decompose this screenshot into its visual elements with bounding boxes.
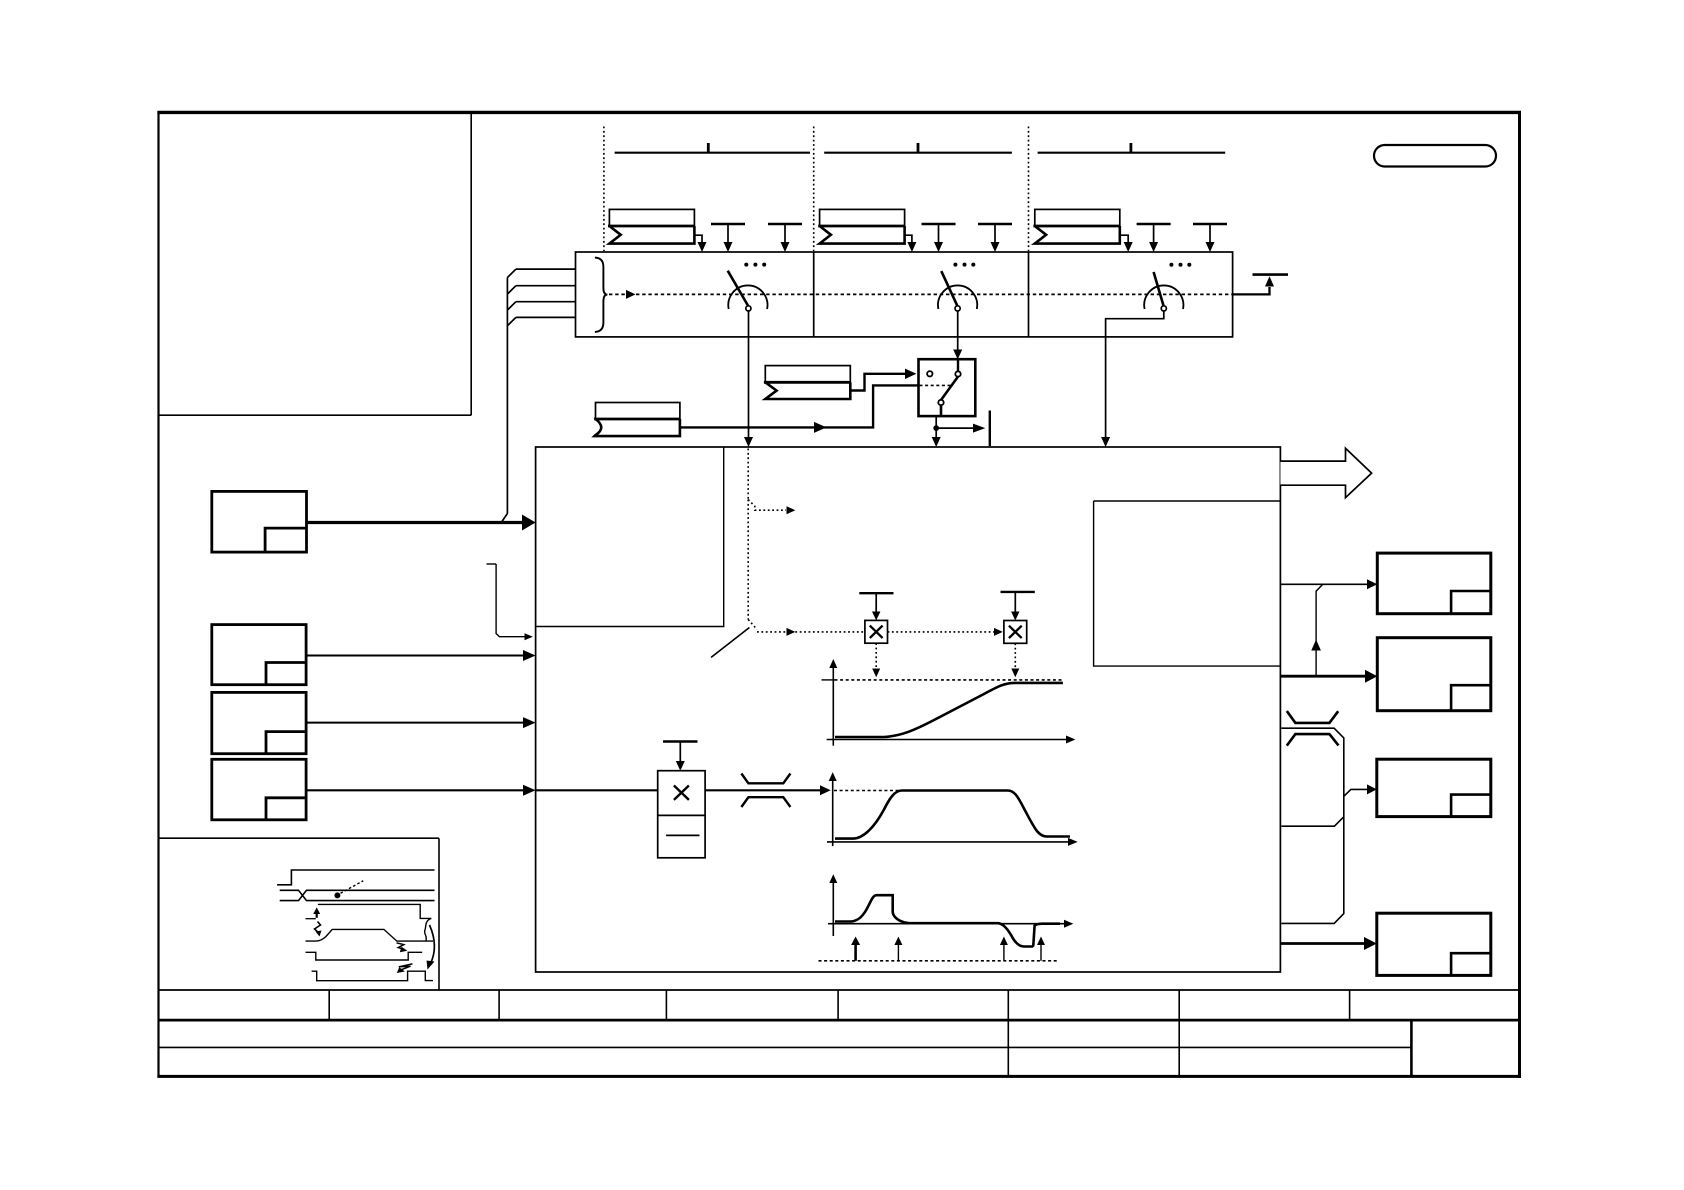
wire flag to switch box input	[850, 374, 905, 391]
connector flag ch2	[818, 209, 904, 243]
graph 2 dotted level	[834, 790, 902, 792]
graph 3 event arrow 1	[854, 944, 857, 961]
parameter input T2 ch1	[768, 224, 802, 252]
timing curved arrow	[430, 925, 435, 964]
diagonal tick mark	[711, 628, 749, 658]
hollow output arrow	[1280, 448, 1371, 497]
dotted branch arrow	[748, 500, 786, 511]
channel separator dotted line 3	[1028, 127, 1030, 252]
wire switch box output	[935, 416, 937, 438]
dotted path continues	[747, 500, 749, 620]
channel separator dotted line 2	[813, 127, 815, 252]
graph 1 curve	[835, 683, 1063, 737]
graph 2 curve	[835, 791, 1070, 839]
brace	[595, 258, 608, 332]
input box 3	[212, 692, 306, 753]
dotted mult1 down	[875, 643, 877, 669]
notes box top-left	[159, 113, 471, 415]
output box 2	[1377, 638, 1491, 711]
wire ch2 switch down	[957, 311, 959, 351]
limiter symbol large	[1287, 711, 1339, 746]
timing box outline	[159, 838, 439, 990]
input box 2	[212, 625, 306, 685]
graph 3 event arrow 3	[1003, 944, 1005, 961]
RFG main box	[536, 447, 1281, 972]
output box 4	[1377, 913, 1491, 975]
graph 3 axes	[828, 874, 1073, 936]
channel 3 title line	[1038, 143, 1226, 153]
band separator 2	[1028, 252, 1030, 337]
parameter input T2 ch3	[1193, 224, 1227, 252]
graph 2 axes	[827, 772, 1078, 846]
output box 1	[1377, 553, 1491, 614]
channel 1 title line	[615, 143, 810, 153]
connector flag ch1	[608, 209, 694, 243]
timing signal A2 with wiggle	[318, 904, 431, 918]
sub box right	[1094, 501, 1281, 666]
timing bus X upper	[280, 890, 435, 900]
dotted mult1 to mult2	[888, 631, 995, 633]
timing trapezoid	[306, 929, 434, 941]
r-parameter output top right	[1233, 275, 1288, 295]
limiter symbol small	[741, 774, 790, 808]
input box 4	[212, 759, 306, 820]
dotted selector path	[609, 293, 626, 295]
dynamic limiter block	[1281, 728, 1343, 923]
selector band	[576, 252, 1233, 337]
output wire 2	[1280, 675, 1365, 678]
title block	[159, 990, 1520, 1076]
input bundle wires	[501, 269, 575, 522]
wire flag ch2 to band	[905, 235, 912, 243]
parameter input T1 ch3	[1137, 224, 1171, 252]
wire input2 to RFG	[306, 655, 524, 657]
timing up arrow left	[316, 913, 318, 918]
graph 3 event arrow 4	[1040, 944, 1042, 961]
output wire 4	[1280, 942, 1364, 945]
output box 3	[1377, 759, 1491, 816]
dotted mult2 down	[1014, 643, 1016, 669]
input box 1	[212, 491, 307, 552]
wire junction to binector wall	[936, 427, 973, 429]
parameter T above block	[663, 742, 698, 771]
timing zigzag right lower	[399, 964, 413, 970]
timing zigzag left	[315, 922, 321, 933]
output wire 1	[1280, 583, 1367, 585]
output wire 3	[1344, 789, 1367, 796]
multiply divide block	[658, 771, 705, 858]
parameter T mult2	[1001, 592, 1035, 621]
border frame	[159, 112, 1520, 1076]
connector flag switch-select	[764, 366, 850, 399]
channel separator dotted line 1	[603, 127, 605, 252]
band separator 1	[813, 252, 815, 337]
parameter input T2 ch2	[978, 224, 1012, 252]
sub box upper-left	[536, 447, 724, 627]
timing bus dot callout	[334, 892, 340, 898]
wire input1 to RFG	[307, 521, 524, 524]
channel 2 title line	[824, 143, 1012, 153]
parameter T mult1	[859, 593, 893, 620]
graph 1 dotted level	[835, 679, 1063, 681]
pill top-right	[1374, 145, 1496, 167]
stub wire with arrow	[487, 563, 497, 565]
timing signal D	[306, 952, 423, 960]
main wire through block	[536, 789, 658, 791]
graph 3 event arrow 2	[897, 944, 899, 961]
parameter input T1 ch1	[711, 224, 745, 252]
graph 3 jerk curve	[835, 895, 1060, 946]
multiplier box 2	[1004, 621, 1027, 644]
wire ch3 switch down	[1106, 311, 1164, 438]
timing signal A	[277, 870, 434, 885]
connector flag ch3	[1033, 209, 1119, 243]
wire input3 to RFG	[306, 722, 524, 724]
switch box	[919, 359, 976, 416]
dotted path from ch1	[747, 449, 749, 500]
switch ch3	[1144, 263, 1191, 311]
multiplier box 1	[865, 620, 888, 643]
wire flag lower to switch box	[680, 426, 814, 428]
branch wire up	[1316, 584, 1323, 676]
parameter input T1 ch2	[922, 224, 956, 252]
switch ch1	[728, 263, 768, 311]
graph 3 dotted base	[819, 960, 1060, 962]
wire flag ch3 to band	[1120, 235, 1128, 243]
wire input4 main setpoint	[306, 789, 524, 791]
wire ch1 switch down	[748, 311, 750, 438]
graph 1 axes	[822, 659, 1076, 746]
timing zigzag right upper	[397, 943, 405, 950]
wire flag ch1 to band	[694, 235, 702, 243]
timing bus X lower	[280, 890, 435, 900]
switch ch2	[938, 263, 977, 311]
timing signal E	[312, 971, 433, 981]
connector flag lower (curved notch)	[594, 403, 680, 437]
